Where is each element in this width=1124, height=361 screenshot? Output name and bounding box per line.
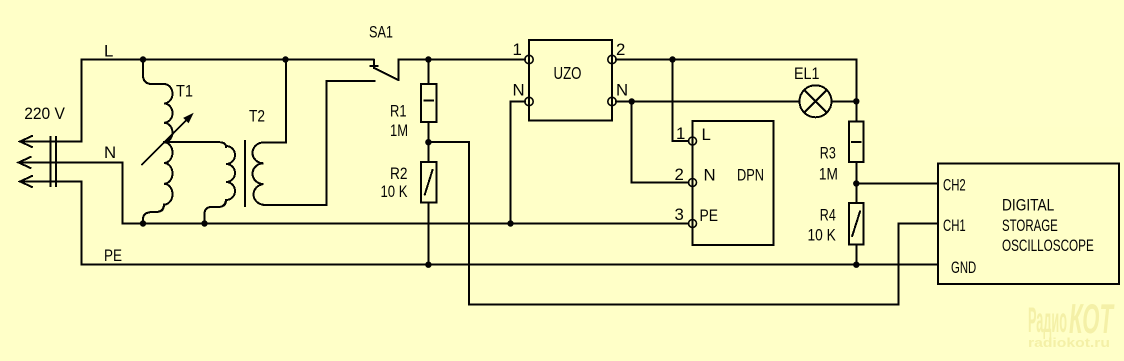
wire: UZO N left riser [511, 102, 525, 224]
UZO pin N left [525, 97, 533, 105]
node UZO N riser junction [507, 220, 513, 226]
UZO pin N right [608, 97, 616, 105]
wire: branch down to DPN pin1 [673, 60, 689, 142]
wire: node to R3 top [855, 101, 857, 121]
wire: T2 secondary bottom to switch lower contact [264, 81, 375, 205]
wire: UZO N right to lamp [616, 100, 799, 102]
wire: plug line L [20, 141, 82, 143]
svg-text:L: L [104, 42, 113, 61]
transformer T2 secondary winding [252, 143, 263, 205]
svg-text:N: N [616, 81, 628, 100]
wire: top rail L from plug to switch [82, 60, 374, 142]
svg-text:L: L [702, 125, 711, 144]
T1 variac arrow [142, 116, 191, 165]
svg-text:T1: T1 [176, 82, 193, 101]
DPN pin 2 [689, 179, 697, 187]
wire: PE vertical from plug [81, 182, 83, 265]
svg-text:PE: PE [700, 206, 719, 225]
node junction T2 secondary top on rail [282, 56, 288, 62]
SA1 pivot stub [373, 60, 375, 68]
wire: PE rail to oscilloscope GND [82, 264, 939, 266]
resistor R1 [421, 60, 437, 123]
node junction T1 top on rail [140, 56, 146, 62]
wire: neutral rail to DPN pin3 [123, 223, 689, 225]
wire: SA1 right riser [398, 60, 400, 81]
SA1 contact tick [371, 65, 378, 67]
svg-text:N: N [104, 143, 116, 162]
svg-text:CH2: CH2 [943, 176, 966, 195]
DPN box U2 [693, 121, 774, 245]
wire: T2 secondary top riser to rail [264, 60, 287, 143]
wire: R2 bottom to PE rail [427, 203, 429, 265]
transformer T1 autotransformer winding [142, 60, 194, 224]
transformer T2 primary winding [226, 146, 235, 200]
node DPN N branch junction [629, 98, 635, 104]
wire: T2 primary bottom to neutral rail [205, 200, 227, 224]
node R2 bottom on PE rail [425, 262, 431, 268]
switch SA1 [371, 60, 399, 81]
svg-text:1M: 1M [390, 121, 408, 140]
wire: R3-R4 link [855, 162, 857, 203]
wire: plug line N [19, 162, 123, 164]
node R4 bottom on PE rail [853, 262, 859, 268]
DPN pin 3 [689, 220, 697, 228]
wire: T1 bottom connector [143, 205, 164, 224]
node T2 primary bottom junction [201, 220, 207, 226]
resistor R3 [849, 122, 864, 163]
svg-text:1: 1 [676, 124, 685, 143]
svg-text:PE: PE [104, 246, 122, 265]
svg-text:N: N [704, 166, 716, 185]
svg-text:1M: 1M [819, 165, 838, 184]
wire: UZO pin2 rail to lamp branch corner [616, 60, 856, 102]
svg-text:220 V: 220 V [24, 104, 65, 123]
resistor R2 [421, 162, 437, 203]
wire: lamp to R3 node [832, 100, 857, 102]
svg-text:3: 3 [675, 205, 684, 224]
wire: T1 top connector [143, 60, 164, 85]
DPN pin 1 [689, 137, 697, 145]
svg-text:N: N [513, 81, 525, 100]
node T1 bottom junction [140, 220, 146, 226]
wire: divider mid to CH1 drop [428, 142, 469, 304]
wire: R1-R2 link [427, 122, 429, 162]
svg-text:DIGITAL: DIGITAL [1002, 196, 1054, 215]
svg-text:10 K: 10 K [381, 182, 408, 201]
wire: junction to CH2 [856, 183, 938, 185]
wire: R4 bottom to PE rail [855, 245, 857, 265]
svg-text:1: 1 [513, 40, 522, 59]
node R1 top junction [425, 56, 431, 62]
wire: CH1 to divider mid [469, 224, 938, 305]
lamp EL1 [800, 85, 857, 117]
UZO pin 2 [608, 55, 616, 63]
svg-text:radiokot.ru: radiokot.ru [1028, 335, 1110, 350]
svg-text:R4: R4 [820, 206, 836, 225]
wire: rail from switch to UZO pin1 [399, 59, 526, 61]
svg-text:R1: R1 [390, 102, 407, 121]
svg-text:DPN: DPN [737, 166, 764, 185]
svg-text:10 K: 10 K [808, 226, 836, 245]
SA1 blade [374, 68, 399, 80]
wire: R1 top lead [427, 60, 429, 85]
svg-text:R3: R3 [820, 144, 836, 163]
svg-text:T2: T2 [249, 107, 265, 126]
svg-text:STORAGE: STORAGE [1002, 216, 1058, 235]
wire: T1 tap to T2 primary [164, 142, 226, 147]
svg-text:R2: R2 [390, 164, 408, 183]
svg-text:2: 2 [616, 40, 625, 59]
T1 winding coils [164, 84, 173, 205]
node lamp R3 junction [853, 98, 859, 104]
plug 220V arrows [19, 136, 123, 187]
node DPN L branch junction [669, 56, 675, 62]
svg-text:CH1: CH1 [943, 216, 966, 235]
UZO pin 1 [525, 55, 533, 63]
node divider mid junction [425, 139, 431, 145]
watermark РадиоКОТ [1028, 295, 1115, 350]
svg-text:GND: GND [951, 258, 976, 277]
svg-text:OSCILLOSCOPE: OSCILLOSCOPE [1002, 236, 1094, 255]
UZO box U1 [529, 40, 612, 121]
svg-text:SA1: SA1 [369, 23, 393, 42]
plug contact bars [50, 137, 52, 186]
resistor R4 [849, 203, 864, 245]
wire: branch down to DPN pin2 [632, 102, 689, 183]
svg-text:2: 2 [675, 165, 684, 184]
svg-text:UZO: UZO [554, 63, 582, 83]
oscilloscope box [938, 164, 1119, 284]
wire: plug line PE [20, 181, 82, 183]
T2 core [244, 141, 246, 206]
svg-text:EL1: EL1 [794, 64, 820, 83]
wire: N down to neutral rail [122, 163, 124, 224]
node R3 R4 junction [853, 180, 859, 186]
